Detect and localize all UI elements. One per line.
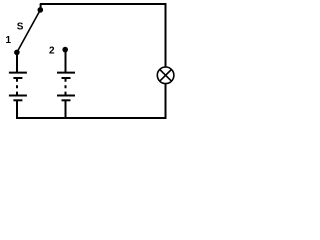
switch blade bbox=[17, 10, 40, 53]
svg-text:S: S bbox=[17, 22, 24, 33]
battery 1 bbox=[9, 53, 27, 119]
wire top (switch to top-right corner) bbox=[40, 3, 167, 5]
wire right lower (lamp to bottom-right corner) bbox=[165, 84, 167, 119]
battery 2 bbox=[57, 47, 75, 119]
battery 1 long plate (top cell) bbox=[9, 72, 27, 74]
battery 1 short plate (top cell) bbox=[13, 77, 22, 79]
battery 2 long plate (bottom cell) bbox=[57, 95, 75, 97]
battery 1 dashed cell continuation bbox=[16, 79, 18, 95]
wire stub from top wire down to switch upper terminal bbox=[40, 4, 42, 9]
battery 2 short plate (top cell) bbox=[62, 77, 71, 79]
svg-text:1: 1 bbox=[6, 35, 12, 46]
battery 2 dashed cell continuation bbox=[65, 79, 67, 95]
node: switch upper terminal dot bbox=[38, 7, 44, 13]
wire from battery 2 down to bottom wire bbox=[65, 100, 67, 119]
wire from battery 1 down to bottom wire bbox=[16, 100, 18, 119]
switch S bbox=[14, 4, 43, 55]
node: switch lower terminal dot bbox=[14, 50, 20, 56]
battery 2 short plate (bottom cell) bbox=[62, 99, 71, 101]
node: battery 2 open terminal dot bbox=[62, 47, 68, 53]
wire from switch dot down to battery 1 bbox=[16, 53, 18, 73]
battery 1 short plate (bottom cell) bbox=[13, 99, 22, 101]
battery 2 long plate (top cell) bbox=[57, 72, 75, 74]
wire from dot down to battery 2 bbox=[65, 50, 67, 73]
battery 1 long plate (bottom cell) bbox=[9, 95, 27, 97]
svg-text:2: 2 bbox=[49, 46, 55, 57]
lamp X1 bbox=[157, 67, 174, 84]
wire right upper (top-right corner down to lamp) bbox=[165, 3, 167, 67]
wire bottom (bottom-right corner to battery 1) bbox=[17, 117, 167, 119]
